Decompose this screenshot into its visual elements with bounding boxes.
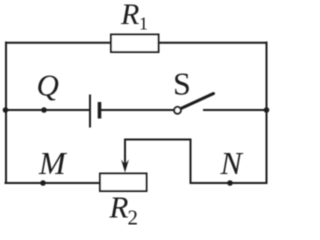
- svg-text:N: N: [220, 145, 244, 181]
- svg-text:Q: Q: [37, 68, 59, 103]
- svg-text:2: 2: [128, 206, 139, 226]
- svg-text:S: S: [173, 65, 191, 101]
- svg-text:R: R: [109, 190, 129, 225]
- svg-text:R: R: [120, 0, 139, 31]
- svg-text:1: 1: [139, 14, 148, 34]
- svg-text:M: M: [38, 145, 68, 181]
